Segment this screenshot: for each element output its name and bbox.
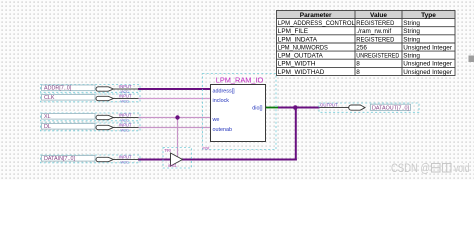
svg-text:String: String: [403, 36, 420, 43]
input pin XL: [41, 112, 141, 122]
svg-text:LPM_INDATA: LPM_INDATA: [278, 36, 318, 43]
svg-text:TRI: TRI: [164, 148, 171, 153]
svg-text:CSDN @: CSDN @: [391, 163, 430, 175]
wire CLK to inclock: [138, 98, 211, 100]
svg-text:inst: inst: [203, 145, 211, 150]
svg-text:XL: XL: [44, 114, 51, 120]
svg-text:./ram_rw.mif: ./ram_rw.mif: [356, 28, 391, 35]
svg-text:CLK: CLK: [44, 95, 55, 101]
svg-text:REGISTERED: REGISTERED: [356, 36, 394, 43]
background grid: [0, 0, 474, 180]
svg-text:Value: Value: [370, 12, 387, 19]
wire DL to outenab: [138, 127, 211, 129]
output pin DATAOUT[7..0]: [319, 103, 419, 113]
svg-text:String: String: [403, 53, 420, 60]
wire dio green stub: [266, 107, 279, 109]
watermark: [391, 163, 470, 175]
wire XL to we: [138, 117, 211, 119]
wire DATAIN bus through TRI to node: [138, 159, 297, 161]
svg-text:8: 8: [356, 69, 360, 76]
svg-text:DL: DL: [44, 124, 51, 130]
wire ADDR bus to address[]: [138, 88, 211, 90]
svg-text:DATAIN[7..0]: DATAIN[7..0]: [44, 156, 75, 162]
svg-text:256: 256: [356, 45, 367, 52]
svg-text:String: String: [403, 20, 420, 27]
scrollbar fragment right edge: [469, 56, 474, 63]
svg-text:LPM_RAM_IO: LPM_RAM_IO: [216, 76, 264, 85]
junction on dio net: [293, 105, 298, 110]
svg-text:we: we: [212, 117, 220, 123]
input pin CLK: [41, 93, 141, 103]
svg-text:inst1: inst1: [168, 163, 178, 168]
svg-text:LPM_OUTDATA: LPM_OUTDATA: [278, 53, 324, 60]
input pin ADDR[7..0]: [41, 84, 141, 94]
svg-text:LPM_FILE: LPM_FILE: [278, 28, 308, 35]
junction on XL net: [175, 115, 179, 119]
svg-text:8: 8: [356, 61, 360, 68]
svg-text:VCC: VCC: [121, 127, 130, 132]
svg-text:Unsigned Integer: Unsigned Integer: [403, 61, 453, 68]
svg-text:LPM_ADDRESS_CONTROL: LPM_ADDRESS_CONTROL: [278, 20, 355, 27]
RAM megafunction LPM_RAM_IO: [203, 74, 277, 151]
svg-text:Unsigned Integer: Unsigned Integer: [403, 69, 453, 76]
parameter table: [277, 11, 456, 76]
wire dio bus to OUTPUT pin: [278, 107, 320, 109]
svg-text:VCC: VCC: [121, 159, 130, 164]
tri-state buffer TRI: [163, 148, 192, 169]
svg-text:Unsigned Integer: Unsigned Integer: [403, 45, 453, 52]
svg-text:Parameter: Parameter: [300, 12, 332, 19]
svg-text:dio[]: dio[]: [252, 106, 263, 112]
svg-text:LPM_WIDTH: LPM_WIDTH: [278, 61, 316, 68]
svg-text:outenab: outenab: [213, 127, 233, 133]
svg-text:ADDR[7..0]: ADDR[7..0]: [44, 86, 72, 92]
svg-text:DATAOUT[7..0]: DATAOUT[7..0]: [372, 105, 409, 111]
input pin DATAIN[7..0]: [41, 154, 141, 164]
input pin DL: [41, 122, 141, 132]
svg-text:LPM_NUMWORDS: LPM_NUMWORDS: [278, 45, 328, 52]
svg-text:inclock: inclock: [213, 98, 230, 104]
svg-text:String: String: [403, 28, 420, 35]
svg-text:VCC: VCC: [121, 98, 130, 103]
wire TRI enable from XL net: [177, 118, 179, 158]
svg-text:OUTPUT: OUTPUT: [320, 103, 338, 108]
svg-text:UNREGISTERED: UNREGISTERED: [356, 53, 399, 60]
svg-text:address[]: address[]: [213, 89, 236, 95]
wire vertical bus dio to DATAIN net: [295, 108, 297, 161]
svg-text:void: void: [454, 163, 470, 175]
svg-text:LPM_WIDTHAD: LPM_WIDTHAD: [278, 69, 325, 76]
svg-text:REGISTERED: REGISTERED: [356, 20, 394, 27]
svg-text:Type: Type: [421, 12, 436, 19]
